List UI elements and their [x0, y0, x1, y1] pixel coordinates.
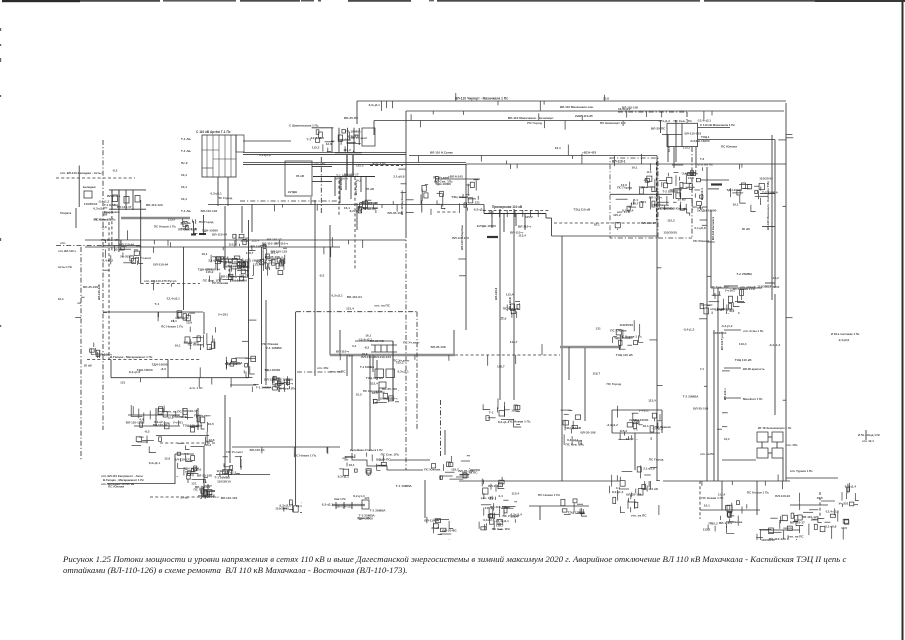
svg-text:И Пс обход 1 Пс: И Пс обход 1 Пс [858, 433, 881, 437]
wire twin vertical 1 [499, 209, 501, 400]
wire strip [331, 128, 333, 153]
wire [768, 436, 772, 438]
wire [312, 127, 334, 129]
wire [584, 348, 586, 421]
wire [370, 165, 403, 167]
substation cluster Курах [184, 327, 216, 350]
svg-text:12,6: 12,6 [180, 221, 186, 225]
svg-text:отп. на ПС: отп. на ПС [330, 369, 347, 373]
svg-text:4,4: 4,4 [158, 412, 163, 416]
svg-text:ВЛ-35-ПС: ВЛ-35-ПС [651, 127, 666, 131]
svg-text:ПС Сев. 1Пс: ПС Сев. 1Пс [101, 238, 120, 242]
wire strip [338, 128, 340, 153]
svg-text:отп. Атлы 1 Пс: отп. Атлы 1 Пс [743, 329, 764, 333]
region boundary [692, 206, 708, 208]
wire long center vertical [561, 236, 563, 481]
wire [132, 190, 134, 210]
wire left vertical [80, 247, 82, 460]
svg-text:-8,3: -8,3 [101, 225, 107, 229]
substation cluster [225, 356, 256, 377]
svg-text:ВЛ-110-94: ВЛ-110-94 [119, 243, 134, 247]
svg-text:115,2: 115,2 [703, 527, 711, 531]
staircase wire [352, 453, 423, 470]
svg-text:-8,3: -8,3 [364, 346, 370, 350]
svg-text:110/35/10: 110/35/10 [217, 469, 231, 473]
region boundary [686, 112, 688, 123]
wire [369, 355, 371, 451]
wire [320, 157, 322, 215]
svg-text:-3,4-j1,2: -3,4-j1,2 [658, 119, 670, 123]
wire [108, 222, 110, 360]
wire long left horizontal [85, 239, 406, 241]
wire [386, 345, 388, 352]
substation cluster [174, 452, 199, 477]
wire [175, 453, 194, 455]
wire [111, 377, 249, 379]
svg-text:118,7: 118,7 [239, 273, 247, 277]
svg-text:Т-1 АБ: Т-1 АБ [181, 209, 192, 213]
substation cluster [251, 242, 289, 276]
wire [711, 287, 762, 289]
svg-text:ПС Южная: ПС Южная [262, 342, 278, 346]
svg-text:7,1: 7,1 [700, 367, 704, 371]
svg-text:ТДН-10000: ТДН-10000 [639, 185, 655, 189]
substation box [757, 448, 768, 458]
svg-text:Т-1: Т-1 [633, 427, 638, 431]
svg-text:отп. общий: отп. общий [740, 285, 756, 289]
wire [356, 101, 358, 124]
svg-text:ПС Уч.кент: ПС Уч.кент [403, 340, 420, 344]
wire stub [762, 226, 775, 228]
wire [782, 458, 784, 481]
svg-text:2хТДН-16000: 2хТДН-16000 [690, 139, 710, 143]
region boundary [691, 147, 693, 238]
svg-text:2,1+j0,8: 2,1+j0,8 [643, 466, 655, 470]
svg-text:ВЛ-110-ч: ВЛ-110-ч [649, 196, 662, 200]
svg-text:ТДН-10000: ТДН-10000 [152, 363, 168, 367]
page top edge line [2, 0, 80, 2]
svg-text:ВЛ-35-108: ВЛ-35-108 [693, 407, 708, 411]
svg-text:атп. 1 Пс: атп. 1 Пс [481, 496, 495, 500]
wire [241, 206, 243, 233]
svg-text:отп. на ПС: отп. на ПС [226, 264, 243, 268]
svg-text:12,6: 12,6 [186, 321, 192, 325]
wire mid vertical [248, 220, 250, 378]
svg-text:Пс-2: Пс-2 [181, 161, 188, 165]
svg-text:113,4: 113,4 [518, 234, 526, 238]
svg-text:ВЛ-110-123: ВЛ-110-123 [126, 420, 143, 424]
substation cluster [205, 255, 247, 272]
svg-text:ПС Город: ПС Город [527, 121, 542, 125]
svg-text:113,4: 113,4 [168, 217, 176, 221]
wire [655, 162, 657, 220]
wire [470, 469, 480, 471]
substation cluster Ахты [101, 245, 151, 265]
wire [217, 177, 219, 206]
svg-text:ПС Кизилюрт 110: ПС Кизилюрт 110 [600, 121, 626, 125]
svg-text:118,7: 118,7 [511, 409, 519, 413]
substation big box Хасавюрт [285, 161, 312, 196]
bus Приморская 110 [484, 213, 546, 215]
svg-text:12,6: 12,6 [603, 97, 609, 101]
svg-text:Хив 1 Пс: Хив 1 Пс [334, 497, 346, 501]
wire double A1 [243, 152, 406, 154]
svg-text:110/35/10: 110/35/10 [713, 331, 727, 335]
svg-text:отп. на ПС: отп. на ПС [166, 410, 183, 414]
svg-text:ПС Новая 1 Пс: ПС Новая 1 Пс [538, 493, 560, 497]
dashed box [229, 262, 248, 277]
svg-text:2,1+j0,8: 2,1+j0,8 [208, 258, 220, 262]
wire [183, 247, 185, 310]
wire [141, 283, 200, 285]
svg-text:Т-1 16МВА: Т-1 16МВА [266, 346, 283, 350]
wire [87, 359, 200, 361]
svg-text:ПС Уч.кент: ПС Уч.кент [433, 175, 450, 179]
wire VL-110-I [466, 163, 786, 165]
substation cluster [756, 515, 805, 542]
wire step [545, 214, 547, 219]
wire [338, 181, 340, 215]
svg-text:ВЛ-110-II: ВЛ-110-II [494, 288, 498, 300]
substation cluster Избербаш [606, 406, 671, 441]
wire [339, 139, 350, 141]
svg-text:-8,3: -8,3 [112, 169, 118, 173]
wire [483, 210, 550, 212]
svg-text:Т-1 16МВА: Т-1 16МВА [227, 361, 244, 365]
wire twin vertical 2 [513, 209, 515, 400]
wire mid-low vertical [295, 312, 297, 505]
wire stub [724, 285, 738, 287]
wire double A2 [243, 153, 406, 155]
svg-text:-3,4-j1,2: -3,4-j1,2 [652, 426, 664, 430]
wire [125, 190, 127, 210]
substation cluster [726, 183, 778, 212]
svg-text:2хВЛ-110-35: 2хВЛ-110-35 [575, 114, 593, 118]
substation box [379, 382, 386, 388]
wire dropper [503, 214, 505, 233]
svg-text:Белиджи: Белиджи [83, 185, 96, 189]
svg-text:ПС Город: ПС Город [218, 196, 233, 200]
svg-text:110/35/10: 110/35/10 [84, 202, 98, 206]
wire [435, 178, 480, 180]
svg-text:110/35/10: 110/35/10 [217, 480, 231, 484]
svg-text:-3,4-j1,2: -3,4-j1,2 [721, 324, 733, 328]
wire [355, 340, 393, 342]
substation box [84, 191, 92, 198]
wire [103, 245, 141, 247]
svg-text:Приморская 110 кВ: Приморская 110 кВ [492, 205, 523, 209]
svg-text:113,4: 113,4 [510, 515, 518, 519]
svg-text:ВЛ-110-123: ВЛ-110-123 [374, 355, 391, 359]
svg-text:-8,3: -8,3 [729, 309, 735, 313]
svg-text:16,1: 16,1 [594, 223, 600, 227]
substation cluster [214, 456, 242, 480]
svg-text:Т-1 16МВА: Т-1 16МВА [345, 129, 362, 133]
svg-text:отп. ВЛ-110-175 Рутул: отп. ВЛ-110-175 Рутул [144, 279, 176, 283]
svg-text:С 110 кВ Махачкала 1 Пс: С 110 кВ Махачкала 1 Пс [700, 123, 735, 127]
svg-text:ТЭЦ 110 кВ: ТЭЦ 110 кВ [616, 353, 634, 357]
svg-text:ВЛ-110-123: ВЛ-110-123 [221, 496, 238, 500]
svg-text:ВЛ-110 Махачкала сев.: ВЛ-110 Махачкала сев. [560, 105, 594, 109]
wire long right vertical 2b [774, 294, 776, 415]
svg-text:113,4: 113,4 [346, 307, 354, 311]
wire dropper [695, 147, 697, 168]
svg-text:ВЛ-110-123: ВЛ-110-123 [146, 203, 163, 207]
wire [356, 203, 358, 230]
bus tick [491, 210, 493, 217]
substation cluster [187, 467, 212, 483]
svg-text:Уч-351: Уч-351 [120, 255, 130, 259]
wire [554, 222, 657, 224]
substation cluster [500, 302, 520, 321]
bus tick [506, 210, 508, 217]
svg-text:121: 121 [191, 482, 196, 486]
svg-text:10,5: 10,5 [356, 393, 362, 397]
svg-text:ВЛ-110 Н.Сулак: ВЛ-110 Н.Сулак [430, 151, 453, 155]
wire long knot vertical [706, 167, 708, 481]
svg-text:В.Гапцах - Магарамкент 1 Пс: В.Гапцах - Магарамкент 1 Пс [110, 355, 153, 359]
svg-text:отп. на ПС: отп. на ПС [788, 535, 805, 539]
svg-text:16,1: 16,1 [175, 344, 181, 348]
svg-text:ИГ 18 Зеленоморск 1 Пс: ИГ 18 Зеленоморск 1 Пс [758, 426, 792, 430]
svg-text:отп. на ПС: отп. на ПС [697, 162, 714, 166]
svg-text:ПС Уч.кент: ПС Уч.кент [194, 414, 211, 418]
svg-text:113,4: 113,4 [648, 399, 656, 403]
wire [721, 481, 723, 510]
svg-text:6,3+j2,1: 6,3+j2,1 [210, 192, 222, 196]
svg-text:отп. на ПС: отп. на ПС [374, 304, 391, 308]
svg-text:10,4: 10,4 [181, 173, 187, 177]
svg-text:-8,3: -8,3 [144, 429, 150, 433]
svg-text:ВЛ-110 Чирюрт - Махачкала 1 Пс: ВЛ-110 Чирюрт - Махачкала 1 Пс [455, 97, 508, 101]
wire tiny [865, 430, 867, 440]
svg-text:Т-1 10МВА: Т-1 10МВА [360, 365, 374, 369]
svg-text:ПС Город: ПС Город [199, 220, 214, 224]
bold strip [346, 155, 348, 176]
svg-text:6,3+j2,1: 6,3+j2,1 [567, 438, 579, 442]
svg-text:атп. 1 Пс: атп. 1 Пс [190, 386, 204, 390]
svg-text:ВЛ-110-ч: ВЛ-110-ч [280, 381, 293, 385]
svg-text:Т-2: Т-2 [700, 157, 705, 161]
bus bold [487, 236, 498, 238]
svg-text:121: 121 [475, 201, 480, 205]
svg-text:Уч-351: Уч-351 [725, 288, 735, 292]
svg-text:ВЛ-110-ч: ВЛ-110-ч [488, 484, 501, 488]
svg-text:ВЛ-35-крепость: ВЛ-35-крепость [743, 367, 765, 371]
svg-text:118,7: 118,7 [246, 251, 254, 255]
wire stub [312, 180, 332, 182]
wire [251, 204, 253, 232]
svg-text:ТДН-10000: ТДН-10000 [198, 267, 214, 271]
bus tick [522, 210, 524, 217]
wire stub [724, 397, 741, 399]
wire [700, 179, 729, 181]
svg-text:115,2: 115,2 [204, 443, 212, 447]
svg-text:10,5: 10,5 [208, 422, 214, 426]
svg-text:12,6: 12,6 [164, 457, 170, 461]
substation cluster [338, 452, 400, 478]
svg-text:ВЛ-110-4: ВЛ-110-4 [700, 188, 704, 200]
wire [760, 529, 800, 531]
svg-text:16,1: 16,1 [296, 504, 302, 508]
svg-text:2,1+j0,8: 2,1+j0,8 [259, 153, 271, 157]
wire long right vertical [785, 103, 787, 481]
svg-text:ВЛ-110-123: ВЛ-110-123 [685, 132, 702, 136]
svg-text:ВЛ-35-108: ВЛ-35-108 [581, 431, 596, 435]
svg-text:4,4: 4,4 [352, 344, 357, 348]
wire [675, 120, 677, 162]
svg-text:115,2: 115,2 [620, 429, 628, 433]
wire central vertical 2 [465, 164, 467, 330]
wire [230, 384, 256, 386]
svg-text:16,1: 16,1 [202, 252, 208, 256]
svg-text:12,6: 12,6 [326, 142, 332, 146]
svg-text:110/35/10: 110/35/10 [175, 316, 189, 320]
wire step [551, 218, 553, 236]
substation cluster [488, 500, 522, 524]
svg-text:ВЛ-35-108: ВЛ-35-108 [265, 255, 280, 259]
svg-text:ПС Новая 1 Пс: ПС Новая 1 Пс [294, 454, 316, 458]
wire stub [724, 329, 741, 331]
svg-text:ПС Новая 1 Пс: ПС Новая 1 Пс [701, 496, 723, 500]
svg-text:110/35/10: 110/35/10 [759, 177, 773, 181]
wire central vertical [405, 111, 407, 233]
substation cluster [194, 488, 216, 499]
bus tick [499, 210, 501, 217]
wire [314, 200, 316, 376]
wire [227, 177, 229, 206]
substation box [757, 432, 768, 442]
svg-text:+ВЛ-6-143: +ВЛ-6-143 [448, 175, 463, 179]
svg-text:10,5: 10,5 [841, 526, 847, 530]
svg-text:ТЭЦ 110 кВ: ТЭЦ 110 кВ [451, 195, 469, 199]
wire [790, 504, 828, 506]
svg-text:6,3+j2,1: 6,3+j2,1 [149, 461, 161, 465]
svg-text:ВЛ-110-123: ВЛ-110-123 [201, 209, 218, 213]
wire [351, 355, 353, 451]
wire [612, 432, 660, 434]
svg-text:10,5: 10,5 [355, 179, 361, 183]
substation cluster [422, 175, 453, 215]
wire [660, 121, 662, 134]
wire stub [312, 166, 332, 168]
substation cluster [610, 466, 660, 518]
bold strip [352, 155, 354, 176]
svg-text:113,4: 113,4 [626, 437, 634, 441]
svg-text:ВЛ-110-ч: ВЛ-110-ч [336, 349, 349, 353]
svg-text:ТЭЦ 110 кВ: ТЭЦ 110 кВ [573, 208, 591, 212]
bus row Дербент 2 [109, 208, 146, 210]
svg-text:ПС Сев. 1Пс: ПС Сев. 1Пс [566, 442, 585, 446]
wire [700, 509, 760, 511]
svg-text:ТЭЦ 110 кВ: ТЭЦ 110 кВ [735, 358, 753, 362]
wire central vertical cont [405, 233, 407, 470]
bus tick [514, 210, 516, 217]
svg-text:Т-2 25МВА: Т-2 25МВА [683, 395, 700, 399]
svg-text:ПС Южная: ПС Южная [670, 206, 686, 210]
wire [174, 454, 176, 484]
wire [229, 417, 231, 463]
wire stub [760, 193, 775, 195]
svg-text:35 кВ: 35 кВ [180, 496, 189, 500]
svg-text:2хТДН-16000: 2хТДН-16000 [629, 418, 649, 422]
svg-text:ПС Уч.кент: ПС Уч.кент [393, 359, 410, 363]
svg-text:35 кВ: 35 кВ [742, 227, 751, 231]
substation cluster Дербент юг [216, 258, 247, 280]
wire [134, 425, 180, 427]
wire [358, 128, 360, 145]
wire [373, 121, 375, 136]
wire [380, 345, 382, 352]
wire tick [351, 502, 353, 509]
region boundary [618, 111, 687, 113]
substation cluster Касумкент area [131, 405, 214, 452]
substation cluster Каспийск [703, 501, 747, 534]
bus thick gray Дербент [121, 217, 190, 219]
svg-text:Т-1: Т-1 [489, 410, 494, 414]
bold bar 2 [199, 233, 206, 235]
svg-text:ВЛ-110-17: ВЛ-110-17 [267, 238, 282, 242]
wire [193, 221, 195, 235]
wire [207, 484, 209, 496]
wire [103, 311, 203, 313]
svg-text:6,3+j2,1: 6,3+j2,1 [483, 518, 495, 522]
svg-text:ВЛ-35-ПС: ВЛ-35-ПС [376, 458, 391, 462]
wire [611, 410, 613, 433]
bus thick gray [330, 354, 455, 357]
substation cluster in region box [613, 180, 656, 230]
svg-text:2хТДН: 2хТДН [288, 190, 297, 194]
substation box [135, 196, 140, 203]
svg-text:2хТДН-16000: 2хТДН-16000 [477, 224, 497, 228]
connection stubs [75, 93, 793, 490]
wire [232, 446, 340, 448]
substation cluster [613, 320, 644, 350]
bus tick [537, 210, 539, 217]
svg-text:Т-1 16МВА: Т-1 16МВА [231, 279, 248, 283]
substation cluster tiny [90, 343, 110, 358]
svg-text:ВЛ-110-94: ВЛ-110-94 [250, 448, 265, 452]
region boundary [658, 237, 692, 239]
svg-text:С 110 кВ Артём Т-1 Пс: С 110 кВ Артём Т-1 Пс [196, 130, 231, 134]
svg-text:ВЛ-35-108: ВЛ-35-108 [83, 285, 98, 289]
svg-text:ПС Новая 1 Пс: ПС Новая 1 Пс [620, 335, 642, 339]
svg-text:ВЛ-110-17: ВЛ-110-17 [641, 221, 656, 225]
bus Кизилюрт [313, 176, 375, 178]
svg-text:6,3+j2,1: 6,3+j2,1 [93, 206, 105, 210]
svg-text:ПС Южная: ПС Южная [721, 145, 737, 149]
wire to Южная [786, 477, 838, 479]
svg-text:113,4: 113,4 [433, 518, 441, 522]
wire [85, 246, 340, 248]
substation cluster [561, 410, 585, 446]
wire [197, 408, 199, 430]
substation box [362, 128, 375, 146]
svg-text:ПС Новая 1 Пс: ПС Новая 1 Пс [508, 419, 530, 423]
wire VL third loop [374, 120, 662, 122]
substation box [375, 369, 384, 378]
svg-text:118,7: 118,7 [496, 523, 504, 527]
wire [111, 190, 113, 210]
wire [699, 481, 701, 519]
wire label line [771, 135, 773, 300]
substation box [772, 448, 783, 458]
wire [202, 215, 204, 235]
substation cluster Сулак [265, 249, 285, 271]
wire [128, 414, 180, 416]
wire jog [483, 205, 485, 214]
substation cluster Южная [791, 492, 849, 540]
